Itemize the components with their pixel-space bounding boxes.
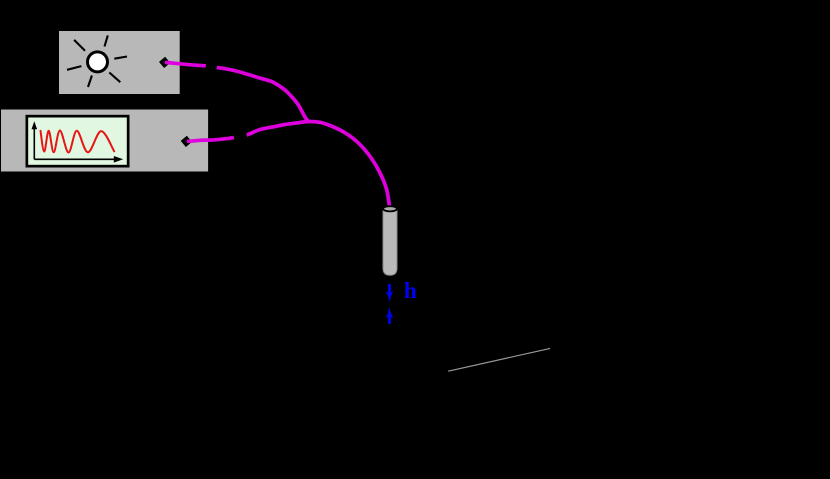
- gap upper arrow: [388, 284, 391, 294]
- lamp ray bottom: [88, 76, 92, 88]
- lamp ray lower-right: [109, 73, 120, 83]
- lamp ray upper-left: [74, 40, 85, 51]
- fiber from detector down to probe: [189, 121, 390, 208]
- lamp ray left: [67, 66, 81, 70]
- scope screen bezel: [26, 115, 130, 168]
- lamp symbol circle: [88, 52, 108, 72]
- gap lower arrow: [388, 316, 391, 324]
- lamp ray right: [114, 57, 127, 59]
- sample surface edge: [448, 348, 550, 371]
- probe body: [383, 209, 397, 275]
- lamp ray top: [105, 35, 108, 46]
- chirp signal trace: [41, 131, 115, 153]
- svg-text:h: h: [404, 278, 417, 304]
- connector on detector: [181, 136, 192, 147]
- break mark on source fiber: [204, 58, 218, 74]
- probe top ferrule: [383, 206, 397, 211]
- screen y-axis: [33, 128, 35, 160]
- screen x-axis: [34, 158, 115, 160]
- scope screen: [28, 118, 127, 165]
- detector box: [1, 110, 208, 172]
- break mark on detector fiber: [232, 128, 248, 144]
- light source box: [59, 31, 180, 94]
- connector on light source: [159, 57, 170, 68]
- fiber from light source: [167, 63, 309, 122]
